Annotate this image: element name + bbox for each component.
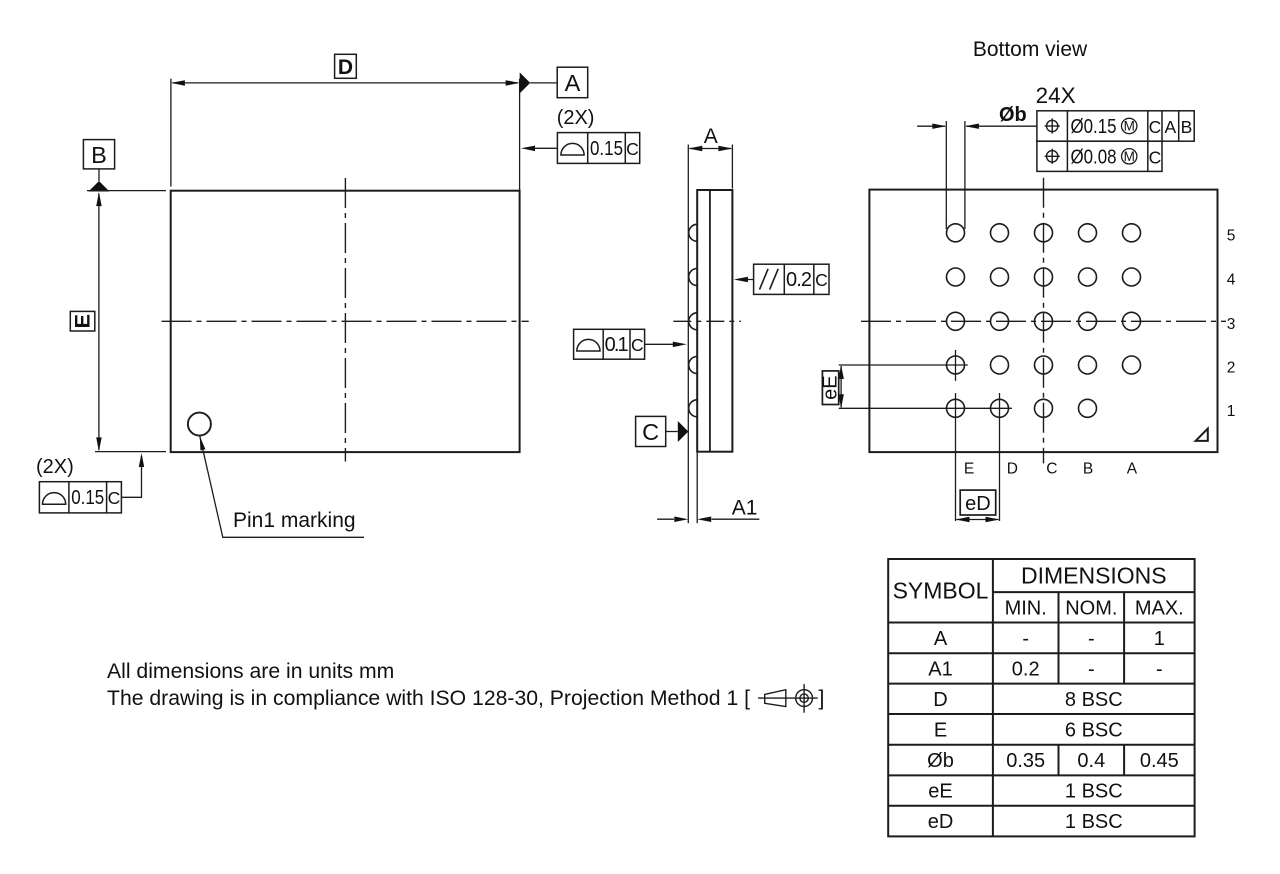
svg-text:4: 4: [1227, 272, 1236, 289]
svg-text:-: -: [1156, 658, 1163, 680]
svg-text:C: C: [815, 270, 828, 290]
svg-text:eD: eD: [965, 493, 991, 515]
svg-text:0.2: 0.2: [786, 269, 812, 291]
svg-text:0.15: 0.15: [590, 138, 623, 160]
svg-text:]: ]: [819, 687, 825, 710]
svg-text:C: C: [1149, 147, 1162, 167]
svg-text:C: C: [1149, 117, 1162, 137]
svg-text:M: M: [1124, 149, 1135, 164]
svg-text:24X: 24X: [1036, 83, 1076, 108]
svg-text:0.15: 0.15: [71, 487, 104, 509]
svg-text:D: D: [338, 56, 353, 79]
svg-text:5: 5: [1227, 227, 1236, 244]
svg-text:C: C: [626, 139, 639, 159]
svg-text:Pin1 marking: Pin1 marking: [233, 509, 356, 532]
svg-text:E: E: [964, 460, 974, 477]
svg-text:(2X): (2X): [36, 456, 74, 478]
svg-text:6 BSC: 6 BSC: [1065, 719, 1123, 741]
svg-text:D: D: [933, 689, 947, 711]
svg-text:E: E: [71, 314, 95, 328]
svg-text:C: C: [108, 488, 121, 508]
svg-text:B: B: [1083, 460, 1093, 477]
svg-text:3: 3: [1227, 316, 1236, 333]
svg-text:0.2: 0.2: [1012, 658, 1040, 680]
svg-text:Øb: Øb: [999, 104, 1027, 126]
svg-text:C: C: [631, 335, 644, 355]
svg-text:-: -: [1022, 628, 1029, 650]
svg-text:MIN.: MIN.: [1005, 598, 1047, 620]
svg-text:Bottom view: Bottom view: [973, 38, 1088, 61]
svg-text:A1: A1: [732, 497, 758, 520]
svg-text:0.35: 0.35: [1006, 750, 1045, 772]
svg-text:(2X): (2X): [557, 107, 595, 129]
svg-text:1 BSC: 1 BSC: [1065, 811, 1123, 833]
svg-text:B: B: [91, 142, 107, 168]
svg-text:eE: eE: [928, 781, 952, 803]
svg-text:A: A: [565, 70, 581, 96]
svg-text:-: -: [1088, 658, 1095, 680]
svg-text:8 BSC: 8 BSC: [1065, 689, 1123, 711]
svg-text:1 BSC: 1 BSC: [1065, 781, 1123, 803]
svg-text:NOM.: NOM.: [1065, 598, 1117, 620]
svg-text:M: M: [1124, 119, 1135, 134]
svg-text:C: C: [1046, 460, 1057, 477]
svg-text:SYMBOL: SYMBOL: [893, 578, 989, 604]
svg-text:DIMENSIONS: DIMENSIONS: [1021, 563, 1167, 589]
svg-text:2: 2: [1227, 360, 1236, 377]
svg-text:eD: eD: [928, 811, 954, 833]
svg-text:Ø0.08: Ø0.08: [1071, 146, 1117, 168]
svg-text:All dimensions are in units mm: All dimensions are in units mm: [107, 660, 394, 683]
svg-text:D: D: [1007, 460, 1018, 477]
svg-text:B: B: [1181, 117, 1193, 137]
svg-text:eE: eE: [820, 375, 842, 399]
svg-text:A: A: [704, 125, 718, 148]
svg-text:Ø0.15: Ø0.15: [1071, 116, 1117, 138]
svg-text:E: E: [934, 719, 947, 741]
svg-text:The drawing is in compliance w: The drawing is in compliance with ISO 12…: [107, 687, 750, 710]
svg-text:MAX.: MAX.: [1135, 598, 1184, 620]
svg-text:1: 1: [1227, 403, 1236, 420]
svg-text:A: A: [1127, 460, 1138, 477]
svg-text:A: A: [934, 628, 948, 650]
svg-text:0.45: 0.45: [1140, 750, 1179, 772]
svg-text:-: -: [1088, 628, 1095, 650]
svg-text:0.4: 0.4: [1077, 750, 1105, 772]
svg-text:0.1: 0.1: [605, 334, 629, 356]
svg-text:C: C: [642, 419, 659, 445]
svg-text:A: A: [1165, 117, 1177, 137]
svg-text:A1: A1: [928, 658, 952, 680]
svg-text:Øb: Øb: [927, 750, 954, 772]
svg-text:1: 1: [1154, 628, 1165, 650]
